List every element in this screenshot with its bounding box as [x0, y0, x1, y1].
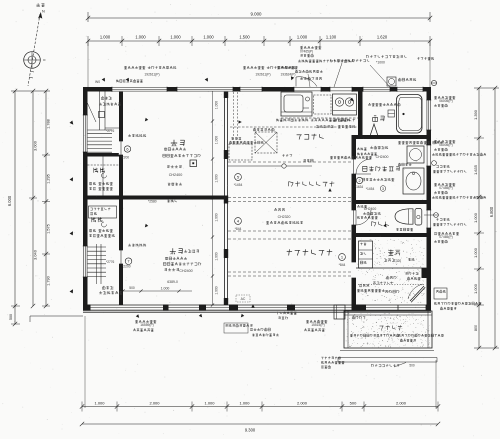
svg-text:*1454: *1454: [234, 183, 243, 187]
datum marks inside: [110, 118, 332, 384]
svg-text:1.000: 1.000: [215, 213, 219, 221]
wall exterior top: [83, 87, 431, 92]
datum marks below south wall: [136, 314, 244, 319]
shower note: [366, 55, 406, 87]
leader lines dims: [85, 41, 436, 408]
porch notes small: [350, 334, 444, 342]
oshiire2 futon note box: [89, 206, 117, 218]
dining circled 5: [234, 174, 243, 187]
svg-text:9.000: 9.000: [251, 12, 263, 17]
washitsu1 label: [171, 140, 185, 146]
back door kitchen (katteguchi): [294, 87, 321, 92]
vent circle right: [431, 80, 437, 85]
note right bath: [434, 96, 455, 107]
living ceiling dash 3: [228, 272, 352, 276]
window top wall bath B: [397, 87, 423, 92]
note right pipe2: [433, 218, 466, 226]
note top washitsu window B: [243, 66, 295, 77]
window left wall stair lower: [83, 246, 88, 277]
note right mid: [433, 165, 466, 173]
ground line bottom left: [30, 316, 83, 322]
note right genkan: [434, 232, 459, 243]
svg-text:1.000: 1.000: [215, 136, 219, 144]
svg-text:1.000: 1.000: [297, 35, 308, 40]
kitchen hood note: [300, 77, 322, 80]
kitchen notes low: [282, 154, 372, 162]
window top wall washitsu1 B: [177, 87, 233, 92]
washitsu1 floor marker box: [190, 160, 197, 167]
washroom spec: [357, 146, 388, 159]
svg-text:500: 500: [409, 364, 415, 368]
svg-text:3.000: 3.000: [33, 140, 38, 151]
living AC note: [236, 295, 250, 302]
svg-text:1.000: 1.000: [203, 35, 214, 40]
svg-text:-320: -320: [395, 259, 402, 263]
svg-text:1.295: 1.295: [47, 174, 51, 184]
kitchen hood dashed: [314, 95, 332, 114]
genkan dotted separator: [358, 282, 425, 285]
wall bath-washroom y=137: [352, 135, 432, 139]
note under living window: [304, 320, 327, 332]
door opening hall-washroom: [351, 159, 356, 174]
genkan agarikamachi line: [356, 267, 427, 269]
kitchen note tana: [334, 119, 355, 122]
datum marks top: [102, 76, 355, 102]
svg-text:500: 500: [9, 314, 13, 320]
washitsu1 spec: [163, 148, 201, 178]
staircase upper label: [99, 97, 121, 133]
kitchen stove unit: [333, 94, 357, 115]
wall stair-hall east x=121: [119, 91, 123, 305]
svg-text:1.000: 1.000: [135, 35, 146, 40]
bath door fold: [370, 124, 378, 136]
note under washitsu2 window: [133, 320, 156, 332]
wall exterior right: [427, 87, 432, 310]
svg-text:CH2400: CH2400: [169, 173, 183, 177]
kitchen inspection hatch: [253, 128, 277, 153]
svg-text:CH2400: CH2400: [179, 269, 192, 273]
dimension total 9.000 top: [86, 12, 432, 23]
dimension chain bottom: [80, 401, 440, 433]
dimension chain top segments: [86, 35, 432, 47]
washer pan: [398, 141, 443, 163]
living center note: [266, 208, 303, 224]
svg-text:AC: AC: [241, 297, 246, 301]
svg-text:*1454: *1454: [366, 187, 375, 191]
washitsu2 dim note: [167, 280, 178, 284]
svg-text:06005(P): 06005(P): [439, 143, 453, 147]
bath label: [373, 116, 385, 122]
washitsu1 circled 6: [124, 146, 130, 152]
bath size note: [368, 103, 400, 106]
svg-text:1.000: 1.000: [94, 401, 105, 406]
svg-text:2.000: 2.000: [149, 401, 160, 406]
svg-text:6: 6: [126, 147, 128, 152]
svg-text:1.000: 1.000: [473, 247, 478, 258]
genkan label: [388, 250, 400, 256]
staircase lower label: [99, 286, 122, 294]
oshiire2 label: [92, 217, 107, 227]
svg-text:N: N: [42, 10, 45, 14]
porch tataki note: [352, 316, 365, 319]
vent circle right2: [432, 161, 437, 166]
svg-text:1.000: 1.000: [215, 101, 219, 109]
window top wall bath A: [363, 87, 390, 92]
kitchen column dashed: [234, 92, 238, 144]
kitchen sink unit: [281, 92, 312, 116]
porch outline: [344, 311, 432, 348]
svg-text:*2776: *2776: [106, 129, 115, 133]
svg-text:1.390: 1.390: [473, 109, 478, 120]
svg-text:193624(P): 193624(P): [281, 73, 296, 77]
dimension chain right: [473, 86, 499, 350]
washitsu1 kaidan note: [128, 134, 146, 137]
svg-text:*1634: *1634: [355, 185, 364, 189]
washitsu2 mini dim: [121, 286, 192, 293]
living label: [287, 249, 333, 255]
washitsu2 kaidan note: [128, 244, 146, 247]
washroom label: [363, 166, 400, 171]
vent cross right margin: [424, 213, 438, 218]
window left wall stair upper: [83, 115, 88, 152]
living ceiling dash 2: [228, 231, 352, 239]
washroom circled 2: [355, 177, 364, 189]
svg-text:15515(P): 15515(P): [311, 323, 325, 327]
svg-text:7: 7: [127, 259, 129, 264]
note right washroom: [432, 140, 486, 156]
svg-text:07465(P): 07465(P): [439, 235, 453, 239]
svg-text:3: 3: [382, 187, 384, 191]
dimension chain left: [7, 89, 51, 326]
svg-text:3.040: 3.040: [33, 249, 38, 260]
svg-text:*2776: *2776: [106, 260, 115, 264]
svg-text:*844: *844: [235, 227, 242, 231]
svg-text:2: 2: [358, 179, 360, 183]
svg-text:1.000: 1.000: [204, 401, 215, 406]
svg-text:1.000: 1.000: [161, 287, 170, 291]
washitsu1 note 2200: [121, 155, 130, 159]
svg-text:192611(P): 192611(P): [255, 73, 270, 77]
note top window C: [277, 66, 298, 77]
washitsu2 spec: [163, 257, 201, 273]
door scope note: [371, 363, 415, 368]
porch label: [380, 325, 403, 330]
compass north arrow: [24, 3, 46, 86]
svg-text:2.000: 2.000: [297, 401, 308, 406]
toilet note left: [357, 205, 377, 219]
svg-text:07455(P): 07455(P): [439, 186, 453, 190]
svg-text:1.000: 1.000: [215, 174, 219, 182]
window top wall washroom vent: [330, 87, 352, 92]
svg-text:6.000: 6.000: [7, 195, 12, 206]
svg-text:*2200: *2200: [121, 155, 130, 159]
wall oshiire-stair y=155: [83, 153, 123, 157]
washbasin: [403, 168, 424, 194]
oshiire1 shelf note: [89, 182, 113, 190]
entrance door threshold: [398, 305, 426, 310]
living circled 1: [339, 254, 346, 267]
porch step note: [321, 357, 344, 369]
toilet spec: [363, 207, 380, 215]
stair small box: [99, 112, 105, 118]
svg-text:1.000: 1.000: [473, 283, 478, 294]
door opening stairhall-washitsu1: [119, 141, 123, 155]
svg-text:1.000: 1.000: [215, 286, 219, 294]
wall note 2580: [148, 200, 177, 204]
svg-text:1.575: 1.575: [47, 224, 51, 234]
svg-text:CH2320: CH2320: [278, 215, 291, 219]
note boxed kabe: [224, 323, 279, 336]
svg-text:500: 500: [129, 286, 135, 290]
note top kitchen: [298, 46, 354, 63]
dining label: [289, 181, 335, 186]
wall washitsu divider y=197.5: [83, 196, 228, 200]
window right wall bath: [426, 100, 431, 130]
wall washitsu east x=226: [224, 91, 228, 305]
genkan floor stipple: [358, 239, 425, 303]
living circled 4: [235, 218, 242, 231]
dining dash line: [228, 161, 352, 163]
kitchen note bousui: [316, 125, 355, 128]
svg-text:2.000: 2.000: [396, 401, 407, 406]
toilet label: [372, 222, 389, 229]
svg-text:*2200: *2200: [122, 265, 131, 269]
kitchen pass counter: [228, 164, 312, 168]
svg-text:*1000: *1000: [376, 61, 385, 65]
staircase lower treads: [88, 244, 107, 284]
wall exterior left: [83, 87, 88, 310]
note katteguchi: [295, 70, 322, 87]
kitchen cupboard dashed: [229, 137, 263, 160]
door opening genkan-living: [351, 262, 356, 278]
svg-text:*844: *844: [339, 263, 346, 267]
WO mark: [95, 80, 100, 84]
dim chain washitsu east 1.000: [211, 91, 219, 307]
washitsu2 note 2200: [106, 260, 131, 269]
datum marks left: [69, 120, 74, 293]
note genkan side: [434, 302, 481, 310]
porch left step: [334, 305, 345, 319]
wall washroom-toilet y=202: [352, 200, 432, 204]
svg-text:1.788: 1.788: [47, 119, 51, 129]
svg-text:06005(P): 06005(P): [439, 99, 453, 103]
toilet low-tank note: [396, 228, 413, 231]
washroom note right: [398, 163, 411, 166]
monohoshi note: [276, 312, 296, 320]
genkan notes: [357, 258, 420, 293]
svg-text:800: 800: [474, 325, 478, 331]
oshiire1 mid line: [88, 157, 120, 196]
oshiire1 label: [94, 168, 107, 178]
window top wall washitsu1 A: [112, 87, 167, 92]
svg-text:W0: W0: [95, 80, 100, 84]
wall toilet-genkan y=235: [352, 233, 432, 237]
door opening hall-toilet: [351, 210, 356, 225]
wall hall-west x=354: [352, 136, 357, 305]
oshiire2 shelf note: [89, 229, 114, 237]
wall exterior bottom with south glazing: [83, 305, 431, 313]
living ceiling dash 1: [228, 198, 352, 202]
svg-text:1.635: 1.635: [473, 165, 478, 175]
svg-text:1.000: 1.000: [170, 35, 181, 40]
washitsu2 circled 7: [125, 258, 132, 265]
bathtub: [397, 95, 423, 134]
svg-text:CH2400: CH2400: [376, 155, 389, 159]
bath counter: [388, 110, 395, 117]
bath washer note above: [387, 77, 416, 86]
svg-text:1.790: 1.790: [47, 276, 51, 286]
porch stipple: [346, 313, 430, 347]
genkan black post: [422, 268, 427, 278]
note top washitsu window A: [124, 66, 176, 77]
genkan entry door diagonal: [408, 284, 425, 302]
genkan shoe cabinet: [359, 241, 373, 268]
toilet door swing: [356, 210, 371, 225]
back door swing arc: [296, 77, 317, 87]
svg-text:9.300: 9.300: [245, 428, 256, 433]
svg-text:1.500: 1.500: [239, 35, 250, 40]
washitsu1 ceiling dir: [168, 183, 182, 186]
note shirasagi: [116, 80, 142, 83]
kitchen label: [297, 134, 324, 140]
svg-text:6389-0: 6389-0: [167, 280, 178, 284]
svg-text:*2580: *2580: [148, 200, 157, 204]
svg-text:16559(P): 16559(P): [140, 323, 154, 327]
range hood note: [331, 59, 370, 87]
svg-text:6.800: 6.800: [489, 206, 494, 217]
svg-text:07465(P): 07465(P): [300, 50, 313, 54]
svg-text:1.000: 1.000: [473, 212, 478, 223]
washroom door swing: [356, 159, 371, 174]
toilet fixture: [395, 209, 422, 226]
svg-text:1.000: 1.000: [100, 35, 111, 40]
door opening stairhall-washitsu2: [119, 250, 123, 264]
washroom notes: [362, 178, 394, 191]
window top wall kitchen: [240, 87, 262, 92]
wall kitchen-bath x=360: [358, 91, 363, 138]
svg-text:192611(P): 192611(P): [144, 73, 159, 77]
staircase upper treads: [86, 91, 122, 152]
washitsu2 label: [170, 248, 199, 254]
tachiagari note: [434, 288, 447, 299]
svg-text:1.620: 1.620: [377, 35, 388, 40]
kitchen note L2100: [277, 119, 350, 122]
window right wall toilet: [426, 210, 431, 228]
svg-text:500: 500: [350, 401, 357, 406]
note right toilet: [432, 183, 486, 199]
window right wall washroom: [426, 145, 431, 166]
porch step lines: [338, 351, 437, 363]
kitchen counter dash: [230, 118, 358, 127]
note top right corner: [417, 57, 433, 60]
